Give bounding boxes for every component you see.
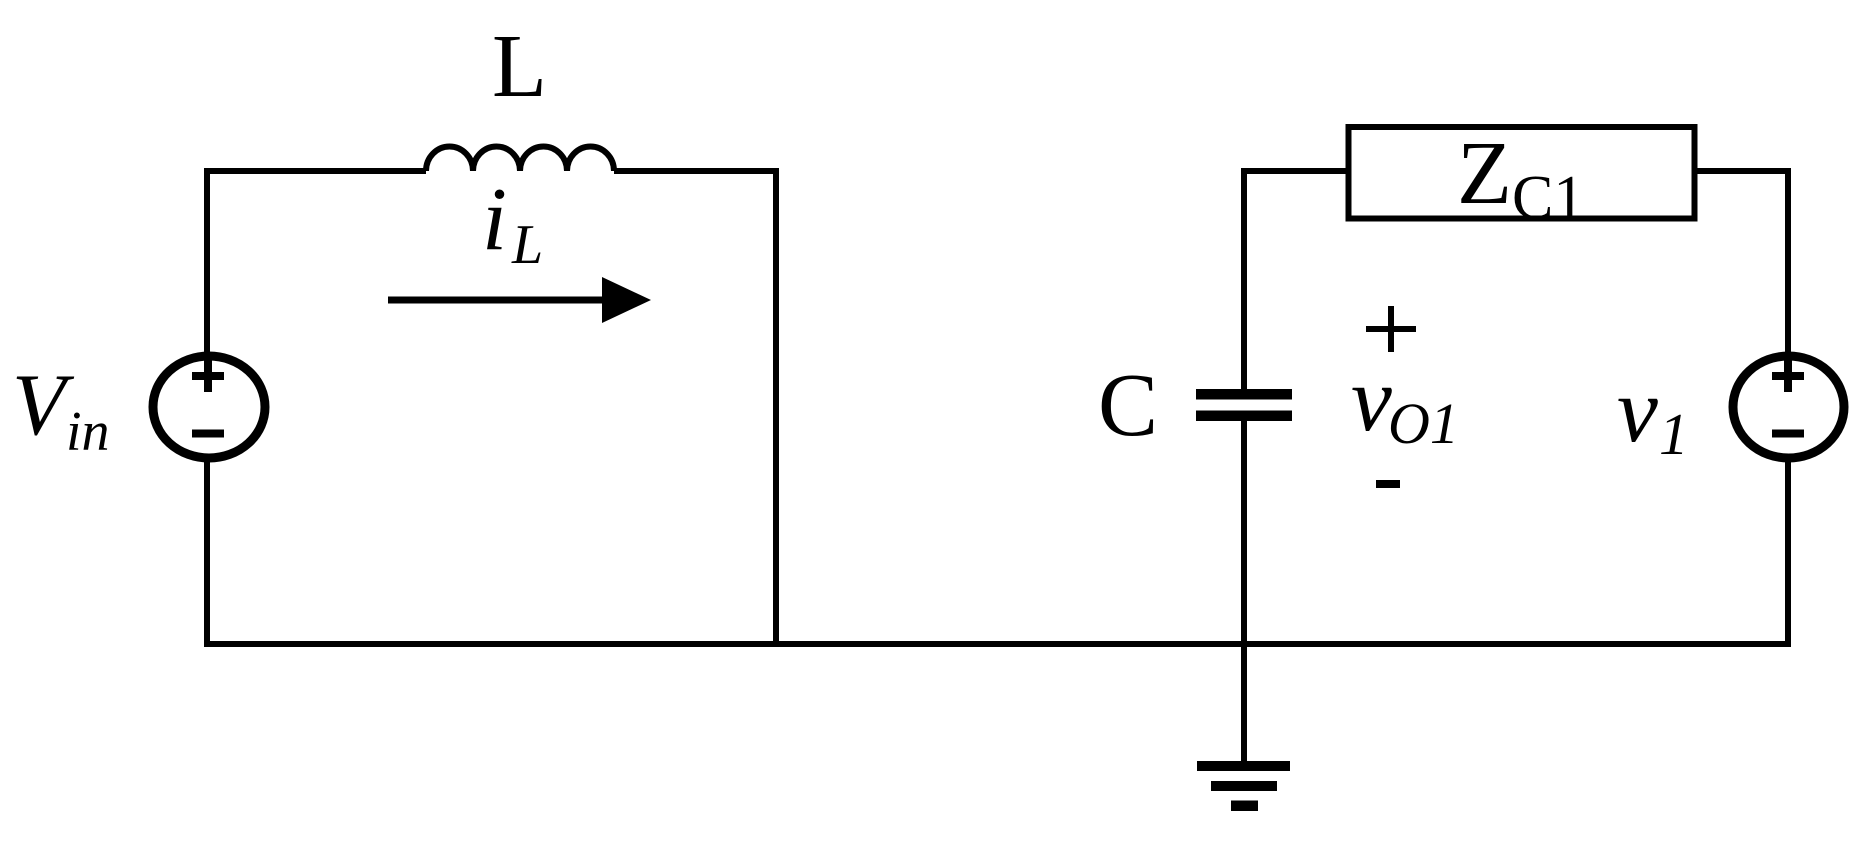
svg-text:L: L <box>492 17 547 116</box>
wire: capacitor top node to ZC1 box <box>1244 171 1346 389</box>
v1 plus <box>1772 360 1804 392</box>
voltage source Vin <box>153 356 265 458</box>
svg-text:v: v <box>1351 348 1392 450</box>
svg-text:C1: C1 <box>1512 164 1584 232</box>
wire: ZC1 box to v1 source <box>1692 171 1788 352</box>
label plus of vO1 <box>1366 306 1416 352</box>
svg-text:O1: O1 <box>1388 391 1459 456</box>
capacitor C plates <box>1196 389 1292 400</box>
svg-text:v: v <box>1617 359 1658 461</box>
wire: bottom rail <box>204 641 1791 647</box>
svg-text:in: in <box>66 401 110 463</box>
wire: top-left horizontal from Vin to inductor <box>207 171 426 352</box>
wire: below Vin down to bottom wire <box>204 459 210 644</box>
voltage source v1 <box>1733 356 1844 458</box>
impedance box ZC1 <box>1349 127 1695 219</box>
inductor L <box>426 147 614 172</box>
wire: capacitor bottom to ground <box>1241 421 1247 761</box>
svg-text:L: L <box>511 214 543 276</box>
v1 minus <box>1772 430 1804 438</box>
wire: top wire from inductor to middle vertical, down to bottom <box>614 171 776 644</box>
Vin minus <box>192 430 224 438</box>
ground <box>1197 761 1290 771</box>
wire: below v1 to bottom rail <box>1785 459 1791 644</box>
arrow iL <box>388 297 606 304</box>
svg-text:1: 1 <box>1659 401 1689 467</box>
svg-text:C: C <box>1098 356 1158 455</box>
Vin plus <box>192 360 224 392</box>
label minus of vO1 <box>1376 480 1400 488</box>
svg-text:i: i <box>482 170 507 269</box>
svg-text:Z: Z <box>1457 124 1512 223</box>
